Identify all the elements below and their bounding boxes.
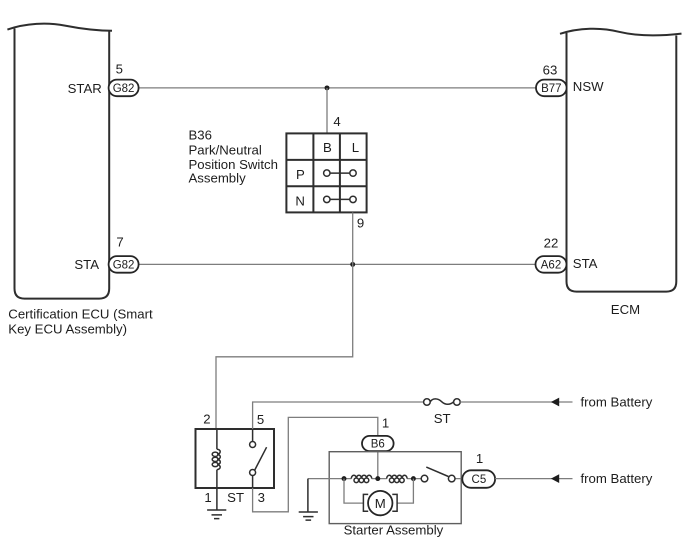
label ST fuse	[434, 411, 451, 426]
label from Battery 2	[581, 471, 653, 486]
svg-text:STAR: STAR	[68, 81, 102, 96]
connector A62	[536, 256, 567, 273]
svg-text:63: 63	[543, 63, 558, 78]
svg-text:B36: B36	[189, 127, 212, 142]
pin label 1 (B6)	[382, 415, 389, 430]
ECM body U-right	[567, 33, 677, 292]
svg-text:B77: B77	[541, 83, 561, 95]
svg-text:4: 4	[333, 114, 340, 129]
svg-text:Key ECU Assembly): Key ECU Assembly)	[8, 321, 127, 336]
pin label 7 (G82)	[116, 235, 123, 250]
wire relay pin 3 to B6	[253, 417, 378, 511]
svg-text:B: B	[323, 140, 332, 155]
svg-text:9: 9	[357, 215, 364, 230]
arrow from Battery 2	[551, 474, 559, 483]
contact N row	[324, 196, 357, 202]
connector G82 (STA)	[109, 256, 139, 273]
node junction starter left	[342, 476, 347, 481]
ground starter	[299, 479, 318, 520]
pin label 4	[333, 114, 340, 129]
pin label 1 (relay)	[204, 490, 211, 505]
label cell N	[295, 193, 305, 208]
label ST relay	[227, 490, 244, 505]
svg-text:Certification ECU (Smart: Certification ECU (Smart	[8, 307, 153, 322]
svg-text:P: P	[296, 167, 305, 182]
svg-text:ECM: ECM	[611, 302, 640, 317]
net label STAR left	[68, 81, 102, 96]
svg-text:G82: G82	[113, 83, 135, 95]
svg-text:2: 2	[203, 412, 210, 427]
node junction STA / pin 9	[350, 262, 355, 267]
pin label 63 (B77)	[543, 63, 558, 78]
relay ST box	[196, 429, 275, 488]
svg-text:ST: ST	[227, 490, 244, 505]
solenoid coil 1	[351, 475, 371, 482]
solenoid coil 2	[387, 475, 407, 482]
pin label 5 (relay)	[257, 412, 264, 427]
svg-text:M: M	[375, 496, 386, 511]
motor M circle	[368, 491, 392, 515]
connector B77	[536, 80, 567, 97]
svg-text:1: 1	[204, 490, 211, 505]
pin label 3 (relay)	[258, 490, 265, 505]
pin label 5 (G82)	[116, 62, 123, 77]
wire relay pin 5 to fuse ST	[253, 402, 424, 429]
wire STA junction to relay pin 2	[216, 264, 353, 429]
wire switch pin 9 to STA net	[352, 212, 354, 264]
node junction starter B6 tap	[375, 476, 380, 481]
svg-text:STA: STA	[573, 256, 598, 271]
svg-text:5: 5	[257, 412, 264, 427]
svg-text:7: 7	[116, 235, 123, 250]
net label NSW	[573, 79, 604, 94]
wire C5 to battery arrow 2	[495, 478, 572, 480]
wire motor leads	[344, 479, 413, 504]
svg-text:A62: A62	[541, 260, 561, 272]
ECM torn top edge	[560, 29, 682, 36]
starter assembly box	[329, 452, 461, 524]
label cell P	[296, 167, 305, 182]
pin label 2	[203, 412, 210, 427]
motor M brushes	[363, 494, 397, 511]
wire junction to switch pin 4	[326, 88, 328, 133]
fuse ST	[424, 399, 461, 406]
net label STA right	[573, 256, 598, 271]
svg-text:3: 3	[258, 490, 265, 505]
node junction starter motor tap	[411, 476, 416, 481]
wire starter main line	[308, 478, 462, 480]
svg-text:22: 22	[544, 235, 559, 250]
svg-text:1: 1	[476, 451, 483, 466]
label Starter Assembly	[344, 523, 444, 538]
svg-text:N: N	[295, 193, 305, 208]
wire STAR net (G82-5 to B77-63)	[139, 87, 537, 89]
svg-text:L: L	[352, 140, 359, 155]
svg-text:Assembly: Assembly	[189, 171, 247, 186]
Certification ECU torn top edge	[7, 24, 112, 31]
svg-text:C5: C5	[472, 474, 487, 486]
svg-text:STA: STA	[74, 257, 99, 272]
svg-text:from Battery: from Battery	[581, 471, 653, 486]
starter switch contacts	[421, 467, 455, 482]
label Certification ECU caption	[8, 307, 153, 337]
label from Battery 1	[581, 394, 653, 409]
node junction on STAR net	[325, 85, 330, 90]
connector G82 (STAR)	[109, 80, 139, 97]
contact P row	[324, 170, 357, 176]
svg-text:ST: ST	[434, 411, 451, 426]
ground relay pin 1	[207, 488, 226, 519]
svg-text:from Battery: from Battery	[581, 394, 653, 409]
Certification ECU body U-left	[15, 29, 110, 299]
relay coil L1	[212, 429, 220, 488]
relay switch contacts	[250, 429, 267, 488]
arrow from Battery 1	[551, 398, 559, 407]
wire B6 to starter	[377, 451, 379, 479]
svg-text:NSW: NSW	[573, 79, 604, 94]
svg-text:5: 5	[116, 62, 123, 77]
label B36 Park/Neutral Position Switch Assembly	[189, 127, 278, 185]
pin label 22 (A62)	[544, 235, 559, 250]
svg-text:Park/Neutral: Park/Neutral	[189, 142, 262, 157]
svg-text:Starter Assembly: Starter Assembly	[344, 523, 444, 538]
label cell L	[352, 140, 359, 155]
label ECM caption	[611, 302, 640, 317]
svg-text:B6: B6	[371, 439, 385, 451]
pin label 9	[357, 215, 364, 230]
connector C5	[462, 470, 495, 488]
switch B36 grid frame	[286, 133, 366, 212]
svg-text:1: 1	[382, 415, 389, 430]
wire fuse to battery arrow 1	[460, 401, 572, 403]
pin label 1 (C5)	[476, 451, 483, 466]
svg-text:G82: G82	[113, 260, 135, 272]
net label STA left	[74, 257, 99, 272]
label cell B	[323, 140, 332, 155]
wire STA net (G82-7 to A62-22)	[139, 263, 536, 265]
connector B6	[362, 436, 394, 451]
